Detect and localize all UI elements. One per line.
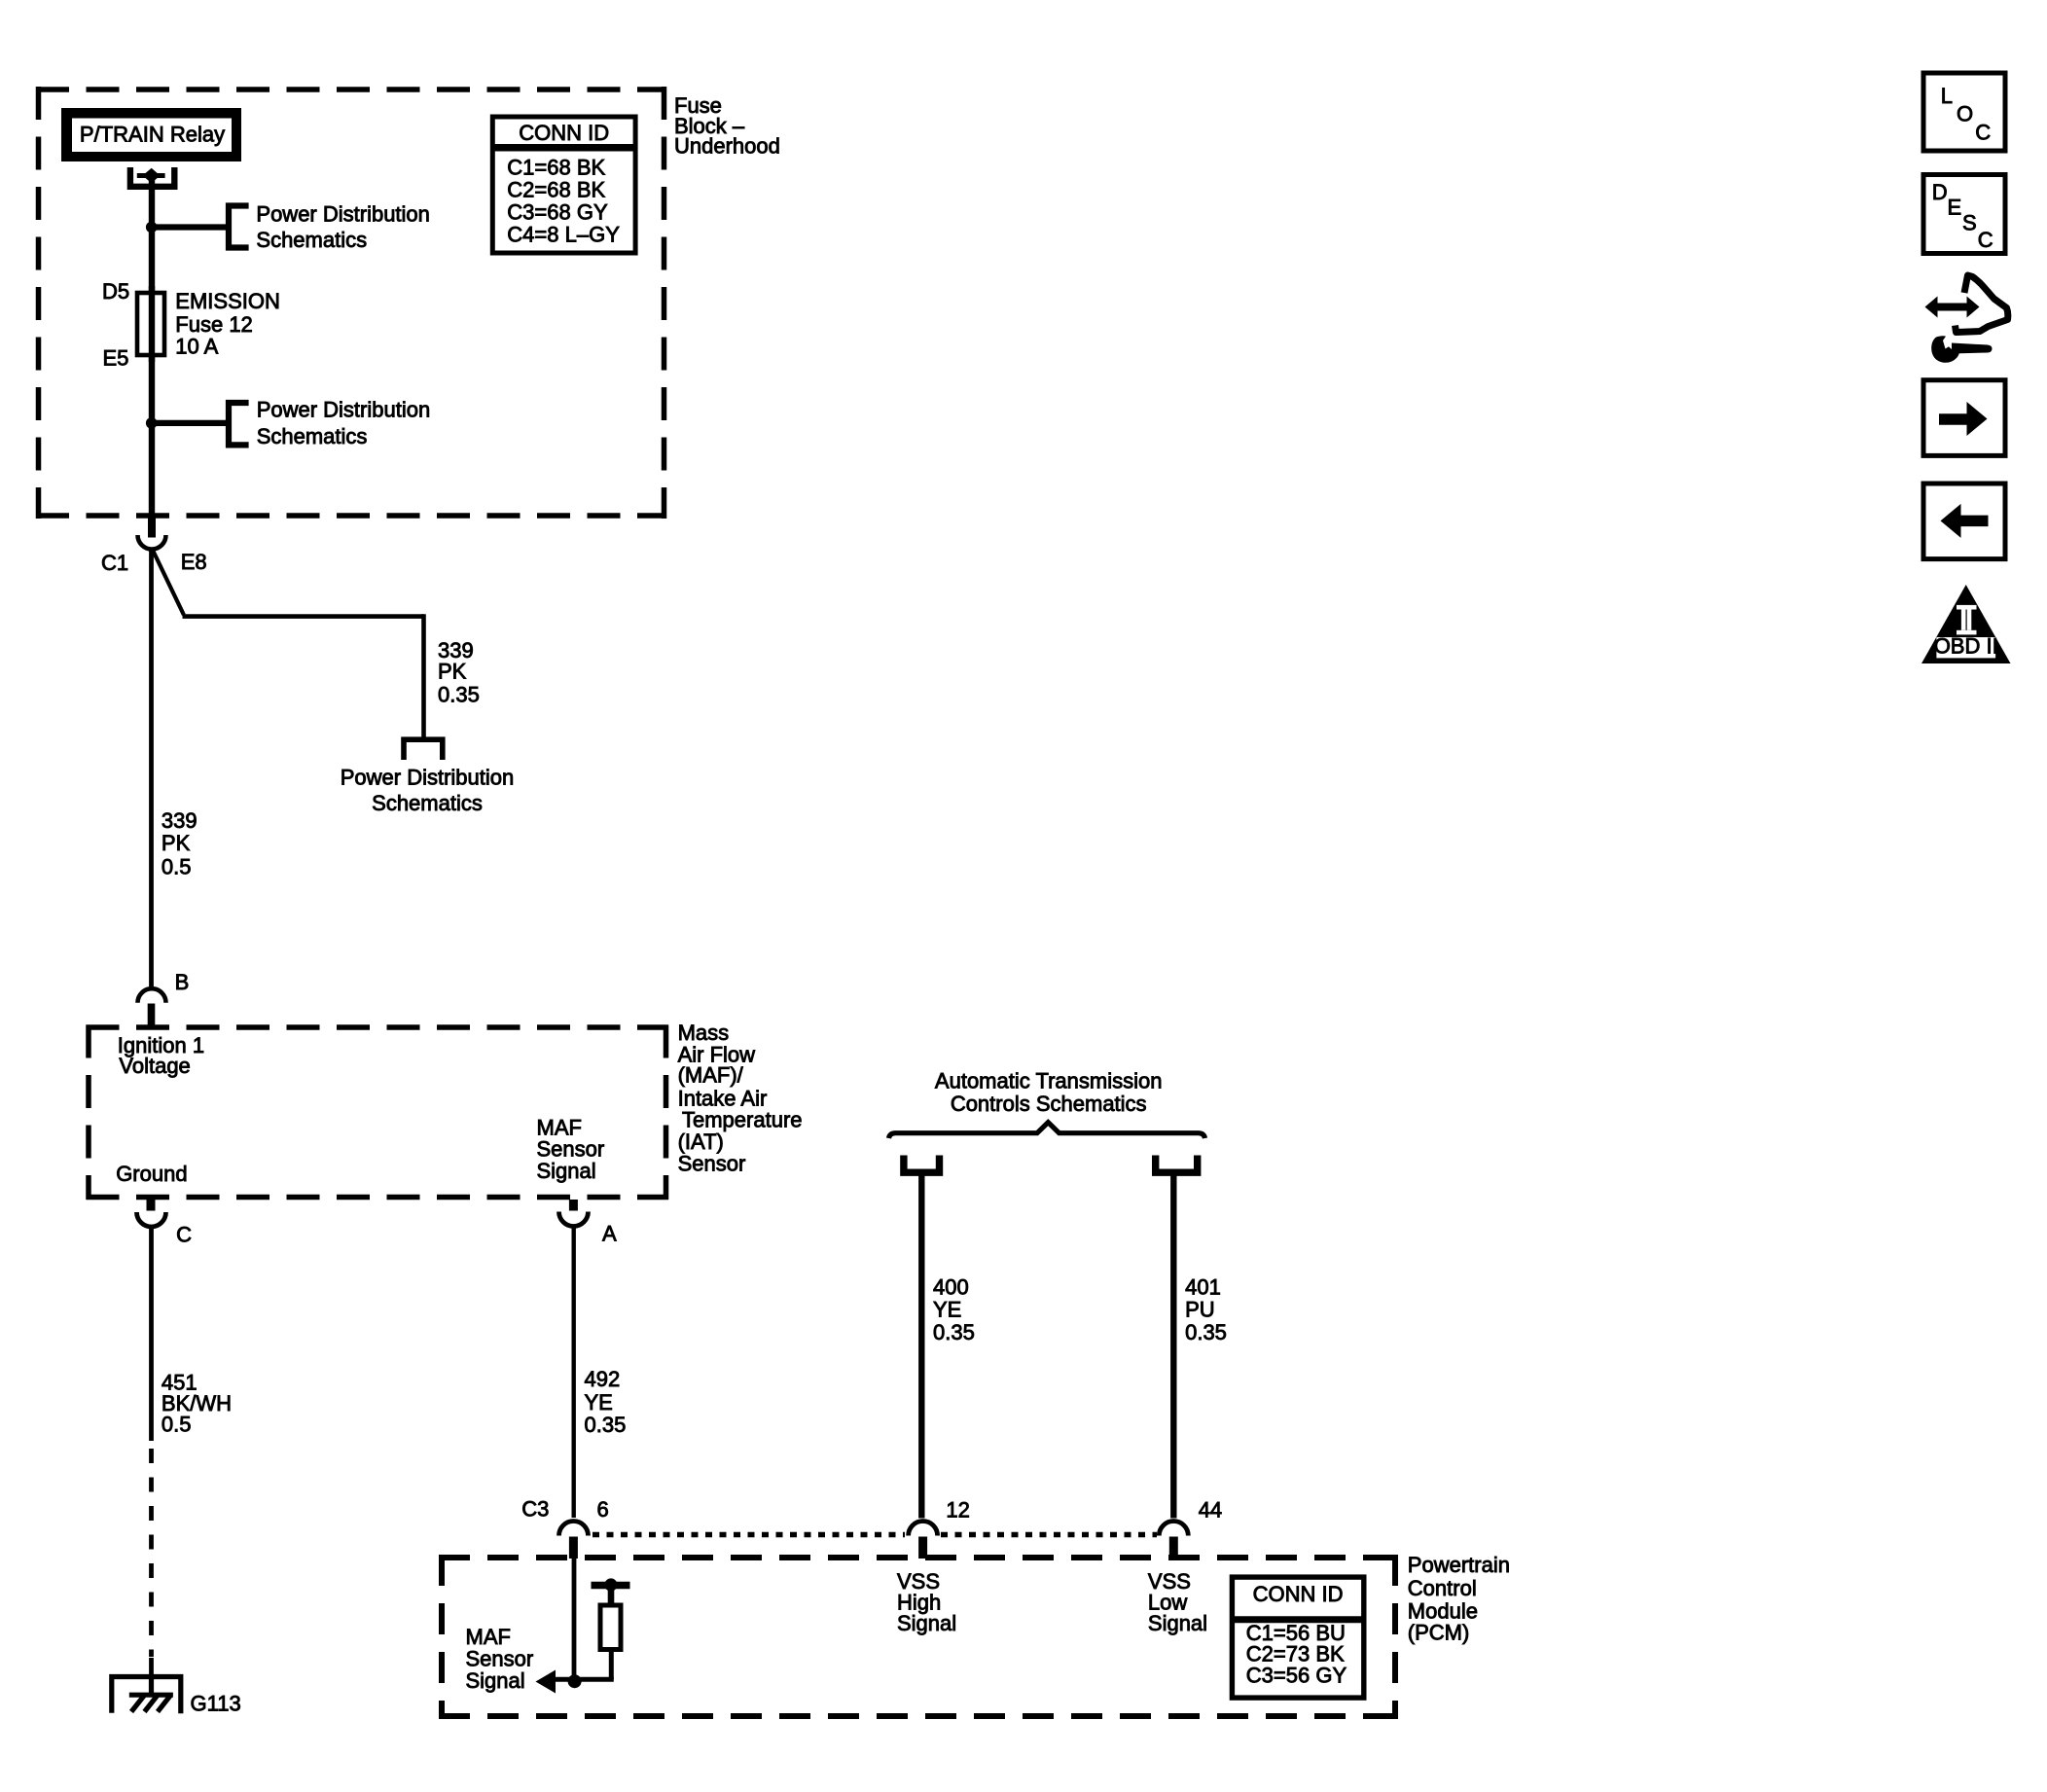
svg-text:P/TRAIN Relay: P/TRAIN Relay [80, 123, 225, 147]
connector pin 12 arc [909, 1522, 938, 1536]
svg-text:Schematics: Schematics [256, 228, 367, 252]
label Power Distribution Schematics centered [341, 765, 515, 815]
svg-text:C4=8 L–GY: C4=8 L–GY [507, 223, 620, 247]
dotted connector line pins 6-12 [593, 1532, 905, 1538]
svg-text:B: B [175, 970, 190, 994]
label Mass Air Flow MAF Intake Air Temperature IAT Sensor [678, 1021, 803, 1175]
label MAF Sensor Signal PCM [466, 1625, 534, 1693]
svg-text:L: L [1941, 84, 1953, 108]
svg-text:Signal: Signal [897, 1611, 956, 1635]
connector C1 pin stub [148, 518, 156, 538]
svg-text:G113: G113 [191, 1692, 241, 1716]
svg-text:10 A: 10 A [175, 335, 218, 359]
svg-text:339: 339 [162, 808, 198, 833]
label 492 YE 0.35 [585, 1367, 627, 1437]
icon LOC box [1923, 73, 2005, 151]
fuse block underhood dashed box [36, 87, 666, 519]
svg-text:0.35: 0.35 [1185, 1320, 1227, 1344]
node junction dot PCM [568, 1674, 582, 1688]
svg-text:C3=56 GY: C3=56 GY [1246, 1663, 1347, 1687]
wire C1 to B [149, 549, 154, 989]
svg-text:Fuse 12: Fuse 12 [175, 312, 252, 337]
svg-text:Controls Schematics: Controls Schematics [951, 1092, 1147, 1116]
connector pin 44 stub [1169, 1537, 1178, 1559]
svg-text:O: O [1957, 101, 1973, 125]
icon right arrow box [1923, 380, 2005, 456]
label MAF Sensor Signal inside sensor box [537, 1115, 605, 1182]
svg-text:C: C [1975, 121, 1991, 145]
PCM dashed box [439, 1555, 1398, 1719]
svg-text:C3: C3 [521, 1496, 549, 1521]
svg-text:E: E [1948, 195, 1962, 219]
svg-text:E5: E5 [103, 346, 129, 371]
svg-text:Voltage: Voltage [119, 1054, 190, 1078]
wire from relay through fuse to C1 [149, 175, 155, 518]
relay pin socket cup [130, 167, 174, 187]
wire horizontal to arrow [552, 1677, 614, 1682]
label 401 PU 0.35 [1185, 1275, 1227, 1344]
svg-text:(PCM): (PCM) [1408, 1621, 1470, 1645]
label Fuse Block - Underhood [674, 93, 780, 159]
label 339 PK 0.35 [438, 638, 480, 707]
node junction dot upper [146, 222, 158, 233]
label 400 YE 0.35 [933, 1275, 975, 1344]
off-page bracket lower [229, 403, 249, 445]
svg-text:0.5: 0.5 [162, 854, 192, 878]
label 339 PK 0.5 [162, 808, 198, 878]
svg-text:MAF: MAF [466, 1625, 511, 1649]
icon wrench [1931, 336, 1959, 363]
svg-text:Signal: Signal [1148, 1611, 1207, 1635]
wire A to C3 [572, 1226, 576, 1519]
connector A socket arc [559, 1212, 589, 1227]
wire E8 branch diagonal [153, 550, 184, 616]
svg-text:C: C [176, 1222, 192, 1246]
wire C to ground solid [149, 1226, 154, 1441]
svg-text:C2=68 BK: C2=68 BK [507, 178, 605, 202]
node junction dot lower [146, 417, 158, 429]
svg-text:Underhood: Underhood [674, 134, 780, 159]
wire E8 branch vertical down [421, 614, 426, 737]
connector C pin stub [147, 1200, 156, 1211]
svg-text:0.5: 0.5 [162, 1413, 192, 1437]
svg-text:CONN ID: CONN ID [519, 121, 609, 145]
wire 400 to pin 12 [918, 1172, 924, 1518]
connector A pin stub [569, 1200, 578, 1211]
svg-text:12: 12 [946, 1497, 969, 1522]
label Powertrain Control Module PCM [1408, 1553, 1510, 1645]
svg-text:EMISSION: EMISSION [175, 289, 280, 313]
brace automatic transmission [889, 1123, 1205, 1138]
svg-text:492: 492 [585, 1367, 621, 1391]
off-page bracket upper [229, 206, 249, 248]
svg-text:0.35: 0.35 [585, 1413, 627, 1437]
node dot on T-bar [604, 1578, 617, 1591]
svg-text:PK: PK [162, 831, 191, 855]
svg-text:401: 401 [1185, 1275, 1221, 1300]
icon DESC box [1923, 175, 2005, 254]
connector B socket arc [138, 988, 166, 1003]
wire E8 branch horizontal [183, 614, 424, 619]
svg-text:S: S [1962, 210, 1977, 234]
label VSS Low Signal [1148, 1569, 1207, 1635]
wire pin 6 inside PCM [572, 1559, 577, 1682]
svg-text:D5: D5 [102, 279, 129, 304]
connector C3 pin 6 stub [569, 1537, 578, 1559]
svg-text:C3=68 GY: C3=68 GY [507, 200, 608, 225]
svg-text:E8: E8 [181, 550, 207, 574]
wire 401 to pin 44 [1170, 1172, 1176, 1518]
svg-text:Signal: Signal [537, 1159, 596, 1183]
svg-text:PK: PK [438, 660, 467, 684]
svg-text:Schematics: Schematics [372, 791, 483, 815]
svg-text:(MAF)/: (MAF)/ [678, 1063, 744, 1088]
svg-text:Sensor: Sensor [678, 1151, 746, 1175]
connector C1 socket arc [138, 535, 166, 550]
connector pin 12 stub [918, 1537, 927, 1559]
svg-text:0.35: 0.35 [933, 1320, 975, 1344]
off-page bracket VSS low [1156, 1156, 1198, 1173]
wire 451 dashed section [149, 1449, 154, 1657]
icon left arrow box [1923, 484, 2005, 559]
svg-text:C1: C1 [101, 551, 128, 575]
MAF IAT sensor dashed box [87, 1025, 669, 1201]
icon adjust glove outline [1956, 275, 2008, 333]
svg-text:Power Distribution: Power Distribution [341, 765, 515, 789]
off-page bracket VSS high [904, 1156, 940, 1173]
svg-text:Temperature: Temperature [682, 1108, 803, 1132]
table CONN ID fuse block [492, 117, 635, 253]
svg-text:Power Distribution: Power Distribution [257, 398, 431, 422]
arrowhead MAF sensor signal [536, 1670, 557, 1694]
svg-text:6: 6 [597, 1497, 609, 1522]
label Ignition 1 Voltage [118, 1033, 204, 1078]
resistor R internal stem [608, 1585, 615, 1606]
connector B pin stub [148, 1004, 156, 1029]
svg-text:PU: PU [1185, 1297, 1215, 1321]
svg-text:C1=68 BK: C1=68 BK [507, 156, 605, 180]
svg-text:OBD II: OBD II [1934, 634, 1998, 659]
table CONN ID PCM [1232, 1577, 1363, 1698]
svg-text:D: D [1932, 180, 1948, 204]
label Power Distribution Schematics lower [257, 398, 431, 448]
label VSS High Signal [897, 1569, 956, 1635]
resistor terminal T-bar [592, 1582, 630, 1590]
connector C socket arc [137, 1212, 166, 1227]
svg-text:A: A [602, 1221, 617, 1245]
icon adjust double arrow [1935, 304, 1968, 311]
wire branch to power distribution upper [152, 224, 229, 230]
svg-text:YE: YE [933, 1297, 961, 1321]
svg-text:YE: YE [585, 1390, 613, 1415]
icon OBD II triangle [1921, 585, 2011, 663]
relay K1 P/TRAIN Relay box [61, 108, 241, 161]
svg-text:Control: Control [1408, 1576, 1477, 1600]
off-page bracket power distribution bottom [404, 739, 443, 760]
connector pin 44 arc [1159, 1522, 1188, 1536]
svg-text:Schematics: Schematics [257, 424, 368, 448]
svg-text:Signal: Signal [466, 1668, 525, 1693]
svg-text:Powertrain: Powertrain [1408, 1553, 1510, 1577]
resistor R body [600, 1605, 621, 1650]
label Automatic Transmission Controls Schematics [935, 1069, 1163, 1117]
wire branch to power distribution lower [152, 420, 229, 426]
svg-text:400: 400 [933, 1275, 969, 1300]
svg-text:44: 44 [1199, 1497, 1222, 1522]
dotted connector line pins 12-44 [941, 1532, 1157, 1538]
svg-text:Power Distribution: Power Distribution [256, 201, 430, 226]
fuse F12 EMISSION [137, 293, 164, 355]
connector C3 pin 6 arc [559, 1522, 589, 1536]
label 451 BK/WH 0.5 [162, 1371, 232, 1437]
svg-text:CONN ID: CONN ID [1253, 1582, 1344, 1606]
label EMISSION Fuse 12 10 A [175, 289, 280, 359]
label Power Distribution Schematics upper [256, 201, 430, 252]
ground G113 symbol [112, 1677, 181, 1714]
svg-text:Ground: Ground [116, 1162, 187, 1186]
svg-text:Automatic Transmission: Automatic Transmission [935, 1069, 1163, 1093]
svg-text:Mass: Mass [678, 1021, 730, 1045]
svg-text:Sensor: Sensor [466, 1647, 534, 1671]
wire resistor to node [609, 1650, 614, 1680]
relay pin arrow terminal [137, 173, 165, 178]
svg-text:C: C [1978, 228, 1993, 252]
svg-text:0.35: 0.35 [438, 683, 480, 707]
